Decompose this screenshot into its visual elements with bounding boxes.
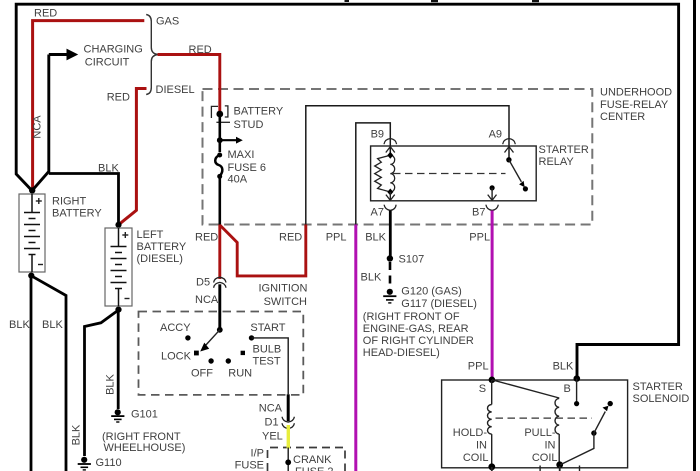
svg-text:BLK: BLK [365,232,386,244]
relay terminal B9 connector [384,139,397,153]
svg-text:B7: B7 [472,207,485,219]
wire: from battery stud through maxi fuse to box exit [219,114,222,225]
junction: left battery negative post [115,307,121,313]
svg-text:RED: RED [189,44,212,56]
starter relay box [371,146,537,201]
ignition OFF terminal [208,358,213,363]
solenoid contactor switch [560,379,613,465]
connector D1 [282,417,294,429]
relay coil winding [390,155,394,192]
fuse MAXI FUSE 6 40A [215,152,226,179]
svg-text:LOCK: LOCK [161,351,192,363]
ignition START terminal [249,335,254,340]
connector D5 [214,277,226,288]
wire: RED diesel charging-circuit feed to left battery [119,89,147,225]
svg-text:NCA: NCA [259,403,283,415]
svg-text:HEAD-DIESEL): HEAD-DIESEL) [363,347,440,359]
ignition switch pivot and blade [200,327,223,352]
wire: RED loop from fuse box exit to relay A9 feed entry [220,225,306,276]
wire: B9 feed inside fuse-relay center [356,123,391,225]
svg-text:SWITCH: SWITCH [264,296,307,308]
svg-text:G110: G110 [96,457,122,469]
junction: solenoid S terminal [489,377,496,384]
svg-text:ENGINE-GAS, REAR: ENGINE-GAS, REAR [363,323,469,335]
svg-text:CIRCUIT: CIRCUIT [85,56,130,68]
svg-text:RUN: RUN [228,367,252,379]
relay switch contacts and blade [506,157,528,191]
svg-text:A7: A7 [371,207,384,219]
junction: solenoid B terminal [574,375,581,382]
svg-text:D1: D1 [265,417,279,429]
junction: right battery positive post [29,187,35,193]
svg-text:FUSE 6: FUSE 6 [228,162,267,174]
svg-text:S: S [479,383,486,395]
wire: BLK from left battery negative to ground G110 [85,310,119,456]
svg-text:HOLD-: HOLD- [453,427,488,439]
svg-text:COIL: COIL [463,452,489,464]
svg-text:TEST: TEST [253,356,281,368]
svg-text:PPL: PPL [468,361,489,373]
underhood fuse-relay center dashed box [203,89,593,225]
wire: BLK wire from NCA wire to left battery positive [49,174,119,224]
wire: PPL from relay B7 to starter solenoid S terminal [491,211,494,380]
svg-text:CHARGING: CHARGING [84,44,143,56]
svg-text:BATTERY: BATTERY [52,208,102,220]
wire: into crank fuse block [287,448,289,471]
svg-text:FUSE 2: FUSE 2 [295,466,334,471]
svg-text:ACCY: ACCY [160,322,191,334]
starter solenoid box [442,380,628,468]
wire: BLK from right battery negative straight down off page [30,276,33,471]
svg-text:UNDERHOOD: UNDERHOOD [600,87,672,99]
svg-text:CENTER: CENTER [600,111,645,123]
ground G101 [111,409,124,422]
svg-text:IN: IN [476,439,487,451]
svg-text:BATTERY: BATTERY [234,106,284,118]
svg-text:PPL: PPL [326,232,347,244]
ignition RUN terminal [226,358,231,363]
svg-text:RELAY: RELAY [539,156,575,168]
splice S107 [387,255,393,261]
wire: BLK from connector D5 to ignition switch pivot [218,284,221,330]
svg-text:SOLENOID: SOLENOID [633,393,690,405]
ignition LOCK terminal [194,351,199,356]
wire: YEL from D1 to crank fuse 2 [287,425,290,449]
svg-text:S107: S107 [399,254,425,266]
svg-text:OFF: OFF [191,367,213,379]
svg-text:B9: B9 [371,129,384,141]
svg-text:GAS: GAS [156,15,179,27]
battery stud (dot with bracket pads) [211,106,230,122]
svg-text:BLK: BLK [71,424,83,445]
svg-text:A9: A9 [489,129,502,141]
svg-text:(RIGHT FRONT OF: (RIGHT FRONT OF [363,311,460,323]
ignition ACCY terminal [185,335,190,340]
svg-text:YEL: YEL [262,431,283,443]
svg-text:FUSE-RELAY: FUSE-RELAY [600,99,669,111]
svg-text:MAXI: MAXI [228,149,255,161]
svg-text:40A: 40A [228,174,248,186]
svg-text:DIESEL: DIESEL [156,84,195,96]
wire: BLK dashed from S107 to ground [389,262,392,290]
relay armature linkage (dashed) [393,173,506,175]
junction dot and feed arrow below battery stud [217,137,243,144]
i/p fuse block dashed box (crank fuse 2), cut at page bottom [268,448,346,471]
svg-text:STUD: STUD [234,119,264,131]
relay terminal B7 contact and connector [486,185,498,210]
svg-text:PPL: PPL [469,232,490,244]
svg-text:(DIESEL): (DIESEL) [137,253,183,265]
wire: off-page vertical wire at far right edge [693,0,696,471]
svg-text:PULL-: PULL- [524,427,556,439]
wire: NCA black from ignition switch to connector D1 [287,394,290,421]
svg-text:IGNITION: IGNITION [259,283,308,295]
svg-text:CRANK: CRANK [293,454,332,466]
wire: NCA black wire from charging circuit to right battery [32,55,49,191]
wire: RED from fuse box exit down to connector D5 [218,225,221,280]
relay coil terminal diamonds [387,152,393,159]
wire: RED gas charging-circuit feed from right battery [33,21,145,190]
svg-text:NCA: NCA [32,115,44,139]
brace grouping GAS/DIESEL to charging circuit [146,15,157,95]
ignition switch dashed box [139,312,304,395]
relay terminal A7 connector [384,192,396,210]
svg-text:RED: RED [34,7,57,19]
svg-text:RED: RED [279,232,302,244]
junction: right battery negative post [28,273,34,279]
svg-text:G120 (GAS): G120 (GAS) [401,286,462,298]
svg-text:NCA: NCA [195,294,219,306]
svg-text:LEFT: LEFT [137,229,164,241]
svg-text:G117 (DIESEL): G117 (DIESEL) [401,298,477,310]
svg-text:OF RIGHT CYLINDER: OF RIGHT CYLINDER [363,335,474,347]
svg-text:BLK: BLK [553,361,574,373]
svg-text:G101: G101 [131,408,158,420]
right battery [19,194,45,272]
wire: BLK from relay A7 down to splice S107 [389,211,392,259]
svg-text:WHEELHOUSE): WHEELHOUSE) [104,442,186,454]
solenoid hold-in coil [488,380,496,470]
wire: A9 feed inside fuse-relay center [306,106,509,225]
svg-text:RED: RED [107,91,130,103]
solenoid pull-in coil [492,380,563,468]
solenoid plunger linkage (dashed) [496,417,593,419]
wire: RED feed from brace to battery stud [158,55,220,113]
svg-text:B: B [564,383,571,395]
wire: BLK from right battery negative angled down off page [31,276,66,471]
ground G110 [78,457,91,470]
junction: left battery positive post [115,222,121,228]
relay terminal A9 connector [503,139,516,153]
wire stubs leaving solenoid at page bottom [492,466,580,471]
svg-text:BATTERY: BATTERY [137,241,187,253]
svg-text:FUSE: FUSE [235,460,264,471]
svg-text:STARTER: STARTER [539,144,589,156]
svg-text:BLK: BLK [42,319,63,331]
svg-text:COIL: COIL [532,452,558,464]
cropped title text remnants at top edge [345,0,540,2]
wire: battery positive cable from right battery to starter solenoid B terminal [16,4,678,377]
svg-text:RED: RED [195,232,218,244]
charging circuit arrow [49,49,78,61]
relay coil resistor zigzag [375,155,391,192]
left battery (diesel) [105,228,132,306]
svg-text:BLK: BLK [9,319,30,331]
svg-text:BLK: BLK [361,272,382,284]
svg-text:RIGHT: RIGHT [52,195,87,207]
svg-text:I/P: I/P [251,448,264,460]
svg-text:BLK: BLK [98,163,119,175]
svg-text:BULB: BULB [253,344,282,356]
svg-text:BLK: BLK [105,373,117,394]
wire: PPL from fuse-relay center to page bottom (crank fuse feed) [354,225,357,471]
svg-text:D5: D5 [196,277,210,289]
ground G120 (gas) / G117 (diesel) [383,289,396,303]
ignition BULB TEST terminal [241,351,245,355]
svg-text:STARTER: STARTER [633,381,683,393]
wire: from START terminal out of ignition switch [252,338,289,394]
junction in crank fuse block [285,459,291,465]
svg-text:START: START [250,322,285,334]
svg-text:IN: IN [545,439,556,451]
wire: BLK from left battery negative to ground G101 [117,310,120,410]
